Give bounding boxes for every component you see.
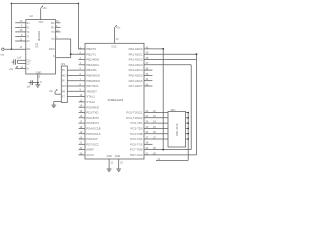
svg-text:AREF: AREF [86,148,94,152]
svg-text:PA6-ADC6: PA6-ADC6 [129,79,143,83]
svg-text:PC3-TD0: PC3-TD0 [131,127,143,131]
svg-text:TO: TO [51,38,54,41]
svg-text:PD7-OC2: PD7-OC2 [130,153,143,157]
svg-text:PD5/OC1A: PD5/OC1A [86,132,100,136]
svg-text:AVCC: AVCC [86,153,94,157]
svg-text:PD3/INT1: PD3/INT1 [86,121,99,125]
svg-text:RS: RS [62,91,66,93]
svg-text:PB7/SCK: PB7/SCK [86,84,98,88]
svg-text:PA4-ADC4: PA4-ADC4 [129,68,143,72]
svg-text:PA3-ADC3: PA3-ADC3 [129,63,143,67]
svg-text:PB3/AIN1: PB3/AIN1 [86,63,99,67]
svg-text:GND: GND [107,155,113,158]
svg-text:PC0-TOSC1: PC0-TOSC1 [126,111,143,115]
svg-text:RN1 4X1K: RN1 4X1K [175,123,179,136]
svg-text:PB5/MOSI: PB5/MOSI [86,74,100,78]
svg-text:+5v: +5v [116,25,121,29]
svg-text:PA7-ADC7: PA7-ADC7 [129,84,143,88]
svg-text:PB1/T1: PB1/T1 [86,52,96,56]
svg-text:PC6-TCK: PC6-TCK [130,142,142,146]
svg-text:PB2/AIN0: PB2/AIN0 [86,58,99,62]
svg-text:PD6/ICP: PD6/ICP [86,137,97,141]
svg-text:U2: U2 [30,14,34,18]
svg-text:RO: RO [51,26,55,29]
svg-text:-RESET: -RESET [86,89,97,93]
svg-text:PD1/TXD: PD1/TXD [86,111,98,115]
svg-text:PC4-TDB: PC4-TDB [130,132,142,136]
svg-text:MO: MO [62,75,66,77]
svg-text:PA2-ADC2: PA2-ADC2 [129,58,143,62]
svg-text:GND: GND [115,155,121,158]
svg-text:MI: MI [62,81,65,83]
svg-text:SCK: SCK [62,86,67,88]
svg-text:RN1: RN1 [171,109,176,112]
svg-text:+5v: +5v [43,6,48,10]
svg-text:PB0/T0: PB0/T0 [86,47,96,51]
svg-text:PC5-TDA: PC5-TDA [130,137,142,141]
svg-text:C2-: C2- [27,63,31,65]
svg-text:PC2-TD1: PC2-TD1 [131,121,143,125]
svg-text:PA1-ADC1: PA1-ADC1 [129,52,143,56]
svg-text:.1uF: .1uF [17,57,22,59]
svg-text:VCC: VCC [111,45,116,48]
svg-text:PD2/INT0: PD2/INT0 [86,116,99,120]
svg-text:PB4/SS: PB4/SS [86,68,96,72]
svg-text:ATMEGA163: ATMEGA163 [108,98,124,102]
svg-text:PC1-TOSC2: PC1-TOSC2 [126,116,143,120]
svg-text:C2+: C2+ [27,60,32,62]
svg-text:PD0/RXD: PD0/RXD [86,105,99,109]
svg-text:TO: TO [51,31,54,34]
svg-text:XTAL1: XTAL1 [86,95,95,99]
svg-text:rxd: rxd [1,53,5,57]
svg-text:GND: GND [36,71,42,74]
svg-text:RI2: RI2 [27,48,31,51]
svg-text:VCC: VCC [38,21,43,24]
svg-text:MAX232: MAX232 [37,30,41,41]
svg-text:1uF: 1uF [27,87,32,89]
svg-text:JP1: JP1 [61,63,66,66]
svg-text:PA0-ADC0: PA0-ADC0 [129,47,143,51]
svg-text:PC7-TMS: PC7-TMS [130,148,143,152]
svg-text:PB6/MISO: PB6/MISO [86,79,100,83]
svg-text:PD7/OC2: PD7/OC2 [86,142,99,146]
svg-text:PD4/OC1B: PD4/OC1B [86,127,100,131]
svg-text:PA5-ADC5: PA5-ADC5 [129,74,143,78]
svg-text:RO: RO [51,22,55,25]
svg-text:XTAL2: XTAL2 [86,100,95,104]
svg-text:R2IN: R2IN [49,48,55,51]
